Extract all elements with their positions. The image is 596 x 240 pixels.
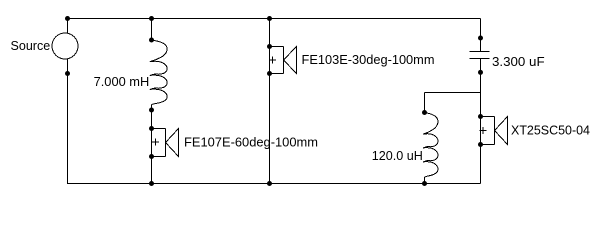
svg-text:3.300 uF: 3.300 uF [492, 54, 545, 69]
terminal dot L2 top [422, 110, 427, 115]
terminal dot XT25SC50-04 top [478, 114, 483, 119]
wire FE103E branch top lead [269, 19, 271, 74]
speaker FE103E top stub [270, 46, 284, 48]
speaker XT25SC50-04 top stub [481, 116, 495, 118]
terminal dot FE103E top [267, 44, 272, 49]
wire right drop lower (capacitor to bottom rail) [480, 59, 482, 184]
speaker XT25SC50-04 cone triangle [495, 117, 508, 145]
speaker FE107E cone triangle [166, 129, 179, 157]
svg-text:FE107E-60deg-100mm: FE107E-60deg-100mm [184, 135, 318, 150]
junction dot top rail at L1 branch [149, 16, 154, 21]
wire L2 branch horizontal [425, 92, 481, 94]
terminal dot C1 bottom [478, 70, 483, 75]
svg-text:120.0 uH: 120.0 uH [372, 148, 423, 163]
speaker FE107E bottom stub [152, 156, 166, 158]
svg-text:7.000 mH: 7.000 mH [94, 74, 150, 89]
terminal dot C1 top [478, 36, 483, 41]
wire L1 to FE107E [151, 110, 153, 157]
source V1 circle [52, 33, 78, 59]
svg-text:XT25SC50-04: XT25SC50-04 [511, 123, 590, 138]
wire top rail [67, 18, 481, 20]
junction dot bottom rail at L2 [422, 181, 427, 186]
wire FE103E to bottom rail [269, 74, 271, 184]
speaker FE107E plus sign [152, 139, 159, 146]
svg-text:Source: Source [11, 38, 51, 53]
wire right drop upper (top rail to capacitor) [480, 19, 482, 52]
terminal dot FE107E bottom [149, 154, 154, 159]
speaker FE103E cone triangle [284, 47, 297, 74]
speaker FE107E top stub [152, 128, 166, 130]
speaker FE103E plus sign [269, 57, 276, 64]
speaker FE103E bottom stub [270, 73, 284, 75]
terminal dot source bottom [65, 71, 70, 76]
wire bottom rail [67, 183, 481, 185]
wire FE107E to bottom rail [151, 157, 153, 184]
terminal dot L1 top [149, 38, 154, 43]
speaker XT25SC50-04 bottom stub [481, 144, 495, 146]
junction dot bottom rail at FE103E branch [267, 181, 272, 186]
inductor L2 120.0 uH coil [423, 113, 438, 184]
capacitor C1 bottom plate [470, 58, 490, 60]
speaker FE107E box right edge [165, 129, 167, 157]
svg-text:FE103E-30deg-100mm: FE103E-30deg-100mm [302, 52, 435, 67]
terminal dot L1 bottom [149, 108, 154, 113]
terminal dot FE103E bottom [267, 71, 272, 76]
wire L2 branch vertical lead [424, 93, 426, 113]
terminal dot FE107E top [149, 126, 154, 131]
wire source top lead [67, 19, 69, 34]
wire L1 branch top lead [151, 19, 153, 41]
junction dot top rail at FE103E branch [267, 16, 272, 21]
junction dot bottom rail at L1/FE107E branch [149, 181, 154, 186]
speaker FE103E box right edge [283, 47, 285, 74]
speaker XT25SC50-04 plus sign [480, 127, 487, 134]
speaker XT25SC50-04 box right edge [494, 117, 496, 145]
inductor L1 7.000 mH coil [150, 40, 167, 110]
junction dot top rail at source [65, 16, 70, 21]
terminal dot XT25SC50-04 bottom [478, 142, 483, 147]
wire source bottom lead [67, 59, 69, 184]
capacitor C1 top plate [470, 51, 490, 53]
